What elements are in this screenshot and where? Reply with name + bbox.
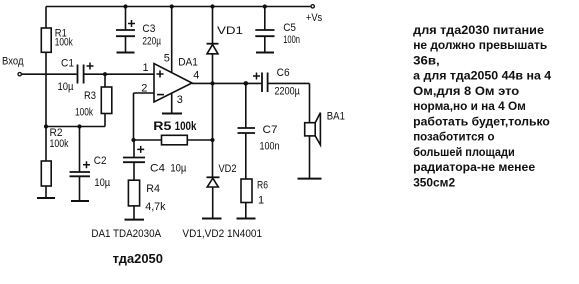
svg-text:100k: 100k	[175, 121, 197, 133]
svg-text:Вход: Вход	[2, 56, 24, 68]
svg-text:220µ: 220µ	[142, 36, 161, 48]
svg-text:100k: 100k	[50, 138, 69, 150]
svg-text:R4: R4	[146, 183, 160, 195]
svg-text:для тда2030 питание: для тда2030 питание	[413, 23, 544, 37]
svg-text:+Vs: +Vs	[306, 12, 323, 24]
svg-text:10µ: 10µ	[58, 81, 75, 93]
svg-text:350см2: 350см2	[413, 175, 455, 189]
svg-text:4,7k: 4,7k	[145, 201, 166, 213]
svg-text:C1: C1	[61, 58, 74, 70]
svg-text:2: 2	[141, 82, 147, 94]
svg-text:Ом,для 8 Ом это: Ом,для 8 Ом это	[413, 84, 519, 98]
svg-text:R6: R6	[257, 180, 268, 192]
svg-text:R3: R3	[84, 90, 96, 102]
svg-text:C6: C6	[277, 67, 290, 79]
svg-text:3: 3	[177, 94, 183, 106]
svg-text:не должно превышать: не должно превышать	[413, 38, 547, 52]
svg-text:100n: 100n	[283, 34, 300, 46]
svg-text:DA1 TDA2030A: DA1 TDA2030A	[91, 228, 161, 240]
svg-text:C4: C4	[150, 163, 165, 175]
svg-text:C2: C2	[94, 155, 107, 167]
svg-text:C5: C5	[283, 22, 296, 34]
svg-text:100n: 100n	[260, 140, 280, 152]
svg-text:работать будет,только: работать будет,только	[413, 114, 550, 128]
svg-text:100k: 100k	[55, 37, 73, 49]
svg-text:позаботится о: позаботится о	[413, 130, 494, 144]
svg-text:VD1: VD1	[217, 25, 243, 37]
svg-text:VD2: VD2	[219, 163, 237, 175]
svg-text:1: 1	[143, 62, 149, 74]
svg-text:DA1: DA1	[178, 56, 198, 68]
svg-text:норма,но и на 4 Ом: норма,но и на 4 Ом	[413, 99, 526, 113]
svg-text:10µ: 10µ	[94, 177, 110, 189]
svg-text:VD1,VD2 1N4001: VD1,VD2 1N4001	[182, 228, 262, 240]
svg-text:а для тда2050 44в на 4: а для тда2050 44в на 4	[413, 69, 551, 83]
svg-text:36в,: 36в,	[413, 53, 440, 67]
svg-text:10µ: 10µ	[170, 163, 187, 175]
svg-text:R5: R5	[153, 121, 172, 133]
svg-text:BA1: BA1	[327, 111, 345, 123]
svg-text:C3: C3	[142, 23, 155, 35]
svg-text:C7: C7	[263, 124, 278, 136]
svg-text:большей площади: большей площади	[413, 145, 515, 159]
svg-text:тда2050: тда2050	[113, 251, 163, 266]
svg-text:4: 4	[193, 69, 199, 81]
svg-text:1: 1	[258, 195, 264, 207]
svg-text:2200µ: 2200µ	[275, 85, 301, 97]
svg-text:радиатора-не менее: радиатора-не менее	[413, 160, 535, 174]
svg-text:5: 5	[164, 53, 170, 65]
svg-text:100k: 100k	[75, 106, 93, 118]
